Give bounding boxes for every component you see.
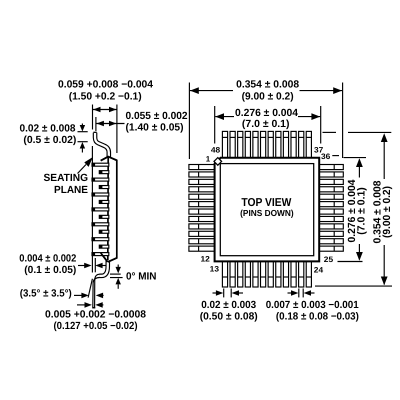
side view: lead row 5 <box>92 193 109 196</box>
side view: dim line 0.055 with arrows and leader <box>96 123 124 125</box>
svg-text:(1.40 ± 0.05): (1.40 ± 0.05) <box>126 123 184 134</box>
side view: lead row 3 <box>92 178 109 181</box>
svg-text:(7.0 ± 0.1): (7.0 ± 0.1) <box>356 187 367 235</box>
svg-text:(PINS DOWN): (PINS DOWN) <box>240 208 294 218</box>
top view: pin 36 (right column) <box>319 165 344 170</box>
top view: pin 8 (left column) <box>189 216 216 221</box>
svg-text:0.059 +0.008 −0.004: 0.059 +0.008 −0.004 <box>58 80 153 91</box>
top view: pin 42 (top row) <box>268 131 273 159</box>
top view: pin 13 (bottom row) <box>222 261 227 288</box>
svg-text:0.02 ± 0.008: 0.02 ± 0.008 <box>20 123 76 134</box>
svg-text:48: 48 <box>211 146 221 155</box>
svg-text:(3.5° ± 3.5°): (3.5° ± 3.5°) <box>20 289 72 300</box>
top view: package body inner outline <box>220 164 313 256</box>
top view: pin 48 (top row) <box>222 131 227 159</box>
side view: lead row 12 <box>99 245 109 248</box>
top view: pin 34 (right column) <box>319 179 344 184</box>
svg-text:SEATING: SEATING <box>44 173 89 184</box>
top view: 0.276 dim line with arrows <box>215 116 234 118</box>
svg-text:24: 24 <box>314 266 324 275</box>
side view: seating plane line <box>91 146 93 273</box>
top view: pin 28 (right column) <box>319 224 344 229</box>
side view: extension line body right <box>116 105 118 154</box>
svg-text:(0.50 ± 0.08): (0.50 ± 0.08) <box>200 312 258 323</box>
svg-text:(0.5 ± 0.02): (0.5 ± 0.02) <box>23 135 76 146</box>
top view: 0.276 extension lines <box>214 106 216 144</box>
side view: lead row 2 <box>99 171 109 174</box>
svg-text:(0.18 ± 0.08 −0.03): (0.18 ± 0.08 −0.03) <box>276 312 359 323</box>
side view: extension line 0.055 left <box>95 117 97 131</box>
side view: 0.02 dim arrows and ticks <box>78 131 88 133</box>
side view: lead row 10 <box>99 230 109 233</box>
side view: 0-degree reference lines <box>110 273 121 275</box>
top view: pin 23 (bottom row) <box>299 261 304 288</box>
side view: 3.5 deg arrows <box>74 294 82 296</box>
svg-text:(9.00 ± 0.2): (9.00 ± 0.2) <box>382 186 393 238</box>
top view: pin 24 (bottom row) <box>306 261 311 288</box>
side view: 0 deg MIN arrows and label <box>117 265 119 268</box>
top view: pin 7 (left column) <box>189 209 216 214</box>
top view: pin 29 (right column) <box>319 216 344 221</box>
top view: pin 9 (left column) <box>189 224 216 229</box>
side view: lead row 13 <box>92 253 109 256</box>
top view: 0.354 extension lines <box>188 83 190 160</box>
side view: body roof re-stroke <box>101 157 109 161</box>
top view: pin 30 (right column) <box>319 209 344 214</box>
side view: 0.004 arrows <box>78 265 85 267</box>
svg-text:0.005 +0.002 −0.0008: 0.005 +0.002 −0.0008 <box>45 310 146 321</box>
top view: pin 27 (right column) <box>319 231 344 236</box>
svg-text:12: 12 <box>201 254 211 263</box>
top view: pin 25 (right column) <box>319 246 344 251</box>
svg-text:(1.50 +0.2 −0.1): (1.50 +0.2 −0.1) <box>69 92 142 103</box>
top view: pin 46 (top row) <box>238 131 243 159</box>
top view: pin 6 (left column) <box>189 202 216 207</box>
side view: dim line 0.059 with arrows <box>93 109 117 111</box>
side view: package body outline <box>101 157 117 262</box>
svg-text:(0.127 +0.05 −0.02): (0.127 +0.05 −0.02) <box>54 321 138 332</box>
side view: lead row 4 <box>99 186 109 189</box>
top view: pin 35 (right column) <box>319 172 344 177</box>
top view: pin 19 (bottom row) <box>268 261 273 288</box>
top view: right 0.276 extension lines <box>344 157 367 159</box>
top view: pin 10 (left column) <box>189 231 216 236</box>
top view: pin 38 (top row) <box>299 131 304 159</box>
top view: pin 20 (bottom row) <box>276 261 281 288</box>
top view: pin 44 (top row) <box>253 131 258 159</box>
side view: body bottom slopes re-stroke <box>101 253 108 262</box>
top view: pin 16 (bottom row) <box>245 261 250 288</box>
svg-text:0.276 ± 0.004: 0.276 ± 0.004 <box>235 108 298 119</box>
side view: 0.005 arrows <box>77 304 85 306</box>
top view: pin 18 (bottom row) <box>261 261 266 288</box>
top view: pin 32 (right column) <box>319 194 344 199</box>
top view: bottom 0.02 dim ticks and arrows <box>223 289 225 298</box>
top view: pin 31 (right column) <box>319 202 344 207</box>
side view: lead row 6 <box>99 200 109 203</box>
top view: pin 40 (top row) <box>283 131 288 159</box>
top view: pin 43 (top row) <box>261 131 266 159</box>
top view: pin 2 (left column) <box>189 172 216 177</box>
side view: extension line seating plane upper <box>92 105 94 130</box>
top view: right 0.354 vertical dim line with arrows <box>383 140 385 179</box>
top view: pin 39 (top row) <box>291 131 296 159</box>
top view: 0.354 dim line with arrows <box>190 90 233 92</box>
side view: lead row 9 <box>92 223 109 226</box>
svg-text:(0.1 ± 0.05): (0.1 ± 0.05) <box>24 265 76 276</box>
top view: pin 21 (bottom row) <box>283 261 288 288</box>
svg-text:36: 36 <box>321 152 331 161</box>
top view: pin 3 (left column) <box>189 179 216 184</box>
top view: pin 37 (top row) <box>306 131 311 159</box>
svg-text:1: 1 <box>206 154 211 163</box>
svg-text:25: 25 <box>324 255 334 264</box>
top view: pin 41 (top row) <box>276 131 281 159</box>
side view: lead row 11 <box>92 238 109 241</box>
top view: pin 5 (left column) <box>189 194 216 199</box>
side view: lead row 1 <box>92 163 109 166</box>
top view: pin 14 (bottom row) <box>230 261 235 288</box>
top view: pin 12 (left column) <box>189 246 216 251</box>
top view: pin 22 (bottom row) <box>291 261 296 288</box>
top view: bottom 0.007 dim ticks and arrows <box>298 289 300 298</box>
svg-text:0.004 ± 0.002: 0.004 ± 0.002 <box>19 254 76 265</box>
svg-text:(9.00 ± 0.2): (9.00 ± 0.2) <box>242 92 294 103</box>
side view: bottom lead bend <box>99 260 107 276</box>
top view: pin 15 (bottom row) <box>238 261 243 288</box>
top view: pin 1 corner diamond marker <box>214 158 222 166</box>
svg-text:13: 13 <box>210 265 220 274</box>
svg-text:PLANE: PLANE <box>54 185 88 196</box>
top view: pin 47 (top row) <box>230 131 235 159</box>
side view: top lead gull-wing <box>95 133 109 157</box>
svg-text:0.02 ± 0.003: 0.02 ± 0.003 <box>201 300 256 311</box>
side view: lead row 8 <box>99 215 109 218</box>
svg-text:0.007 ± 0.003 −0.001: 0.007 ± 0.003 −0.001 <box>266 300 359 311</box>
side view: seating plane leader arrow <box>78 165 87 174</box>
svg-text:0.055 ± 0.002: 0.055 ± 0.002 <box>126 111 188 122</box>
top view: package body outer outline with chamfer <box>215 158 320 262</box>
top view: pin 4 (left column) <box>189 187 216 192</box>
side view: bottom lead foot <box>95 274 100 307</box>
side view: body ridge line <box>107 157 109 261</box>
side view: 0.004 extension line <box>94 258 96 272</box>
top view: pin 11 (left column) <box>189 239 216 244</box>
top view: pin 17 (bottom row) <box>253 261 258 288</box>
top view: pin 1 (left column) <box>189 165 216 170</box>
svg-text:(7.0 ± 0.1): (7.0 ± 0.1) <box>242 119 290 130</box>
svg-text:0° MIN: 0° MIN <box>126 272 157 283</box>
top view: pin 33 (right column) <box>319 187 344 192</box>
top view: pin 26 (right column) <box>319 239 344 244</box>
top view: pin 45 (top row) <box>245 131 250 159</box>
svg-text:0.354 ± 0.008: 0.354 ± 0.008 <box>236 80 299 91</box>
side view: lead row 7 <box>92 208 109 211</box>
top view: right 0.276 vertical dim line with arrows <box>358 160 360 178</box>
top view: right 0.354 extension lines <box>323 131 337 133</box>
